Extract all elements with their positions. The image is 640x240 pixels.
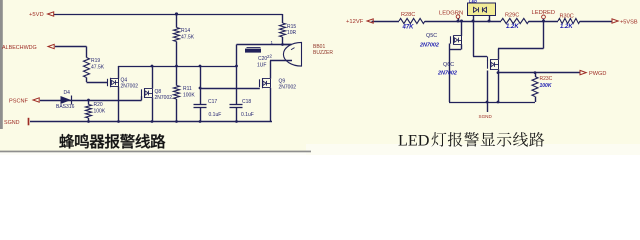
svg-text:1.2K: 1.2K bbox=[506, 24, 519, 30]
svg-text:47.5K: 47.5K bbox=[181, 35, 195, 41]
svg-text:100K: 100K bbox=[94, 109, 106, 115]
svg-text:LED: LED bbox=[469, 0, 477, 4]
svg-text:SGND: SGND bbox=[4, 120, 20, 126]
svg-text:R30C: R30C bbox=[560, 13, 574, 19]
svg-text:BUZZER: BUZZER bbox=[313, 50, 333, 56]
svg-text:R29C: R29C bbox=[505, 12, 519, 18]
svg-text:47.5K: 47.5K bbox=[91, 65, 105, 71]
svg-text:R11: R11 bbox=[183, 86, 192, 92]
svg-text:SGND: SGND bbox=[479, 114, 493, 119]
svg-text:R19: R19 bbox=[91, 58, 100, 64]
svg-text:C17: C17 bbox=[208, 99, 217, 105]
svg-text:47K: 47K bbox=[402, 25, 415, 31]
svg-text:1UF: 1UF bbox=[257, 63, 266, 69]
svg-text:Q5C: Q5C bbox=[426, 33, 437, 39]
svg-text:Q6C: Q6C bbox=[443, 62, 454, 68]
svg-text:R20: R20 bbox=[94, 102, 103, 108]
svg-text:LED: LED bbox=[398, 131, 430, 149]
svg-text:C20: C20 bbox=[258, 56, 267, 62]
svg-text:R23C: R23C bbox=[540, 76, 553, 82]
svg-text:2N7002: 2N7002 bbox=[121, 84, 139, 90]
svg-text:2N7002: 2N7002 bbox=[155, 95, 173, 101]
svg-text:100K: 100K bbox=[183, 93, 195, 99]
svg-text:R14: R14 bbox=[181, 28, 190, 34]
svg-text:PSCNF: PSCNF bbox=[9, 98, 29, 104]
svg-text:2N7002: 2N7002 bbox=[279, 85, 297, 91]
svg-text:C18: C18 bbox=[242, 99, 251, 105]
svg-text:PWGD: PWGD bbox=[589, 71, 606, 77]
svg-text:ALBECHWDG: ALBECHWDG bbox=[2, 45, 37, 51]
svg-text:+12VF: +12VF bbox=[346, 19, 364, 25]
svg-text:+5VD: +5VD bbox=[29, 12, 44, 18]
svg-text:10R: 10R bbox=[287, 30, 297, 36]
svg-text:+5VSB: +5VSB bbox=[620, 19, 638, 25]
svg-text:2N7002: 2N7002 bbox=[419, 42, 439, 48]
svg-text:0.1uF: 0.1uF bbox=[209, 112, 222, 118]
svg-text:BAS316: BAS316 bbox=[56, 104, 75, 110]
svg-text:1.2K: 1.2K bbox=[560, 24, 573, 30]
svg-text:100K: 100K bbox=[540, 83, 552, 89]
svg-text:0.1uF: 0.1uF bbox=[241, 112, 254, 118]
svg-text:D4: D4 bbox=[64, 90, 71, 96]
svg-text:R28C: R28C bbox=[401, 12, 415, 18]
svg-text:2N7002: 2N7002 bbox=[437, 71, 457, 77]
